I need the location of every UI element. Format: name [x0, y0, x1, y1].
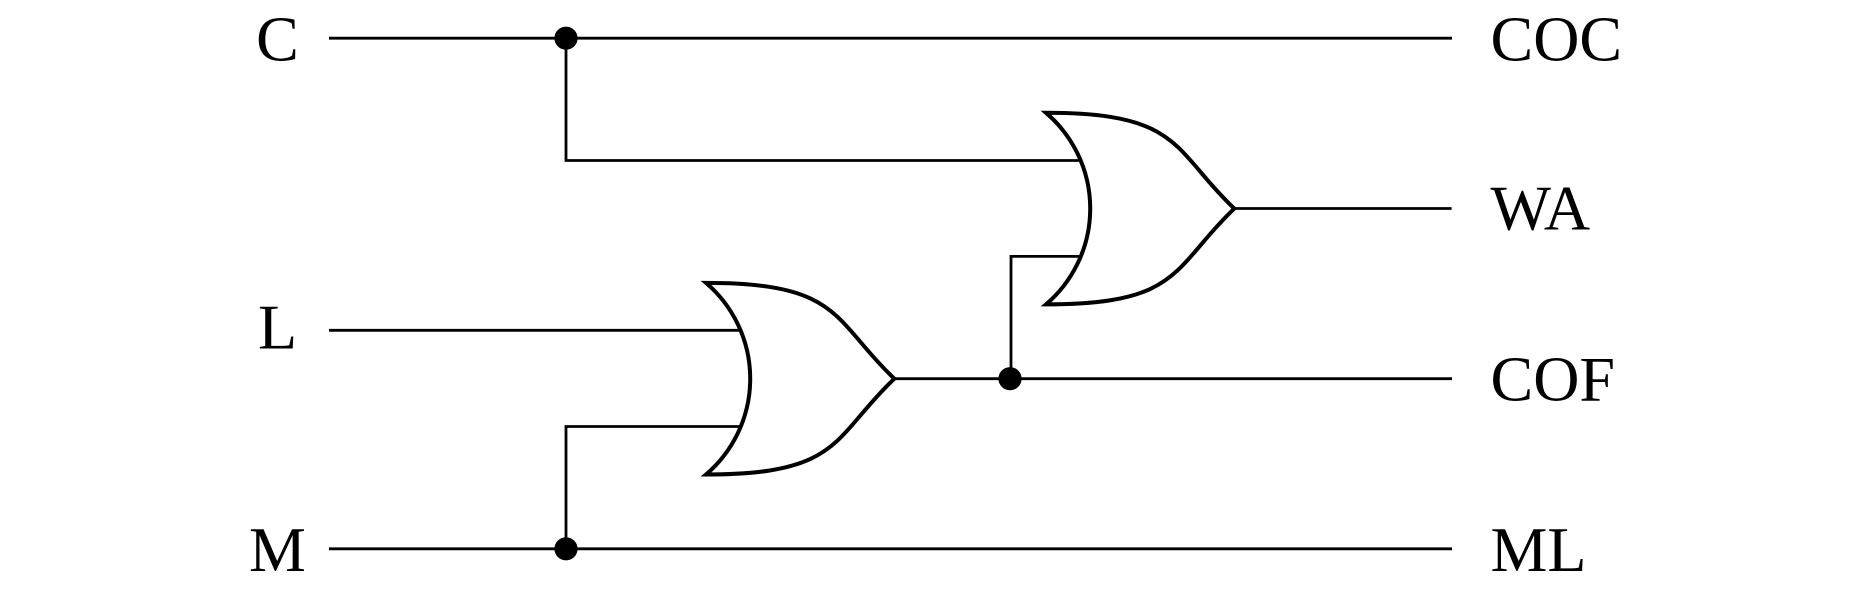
- wire M to ML: [329, 547, 1452, 550]
- svg-text:COF: COF: [1491, 344, 1616, 415]
- wire OR gate U2 output to COF: [894, 377, 1452, 380]
- wire C branch down to OR gate U1 input 1: [566, 38, 1085, 160]
- junction node on M wire: [554, 537, 577, 560]
- wire M branch up to OR gate U2 input 2: [566, 427, 745, 549]
- wire OR gate U1 output to WA: [1234, 207, 1452, 210]
- svg-text:ML: ML: [1491, 514, 1587, 585]
- svg-text:C: C: [256, 4, 299, 75]
- svg-text:WA: WA: [1491, 173, 1591, 244]
- wire L to OR gate U2 input 1: [329, 329, 745, 332]
- wire C to COC: [329, 37, 1452, 40]
- junction node on COF wire: [998, 367, 1021, 390]
- svg-text:M: M: [249, 514, 306, 585]
- or-gate U1 (upper): [1046, 113, 1234, 305]
- svg-text:COC: COC: [1491, 3, 1623, 74]
- svg-text:L: L: [258, 292, 297, 363]
- or-gate U2 (lower): [706, 283, 894, 475]
- junction node on C wire: [554, 27, 577, 50]
- wire node branch up to OR gate U1 input 2: [1011, 256, 1085, 378]
